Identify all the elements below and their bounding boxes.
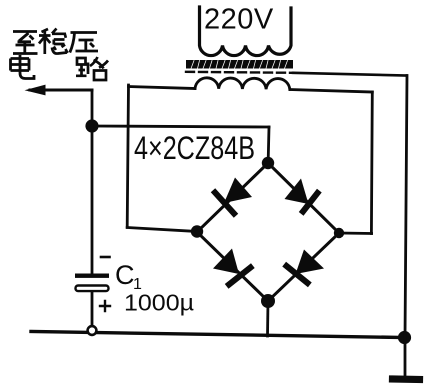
wire: capacitor to bottom rail bbox=[91, 292, 94, 327]
diode D2 (top-right) bbox=[285, 179, 318, 212]
node A junction dot bbox=[85, 119, 98, 132]
wire: right winding lead down bbox=[370, 92, 374, 234]
core dashed line bbox=[186, 72, 293, 73]
minus sign bbox=[101, 256, 110, 259]
Chinese label: 压 bbox=[70, 33, 98, 53]
wire: secondary left lead bbox=[129, 87, 196, 89]
Chinese label: 稳 bbox=[39, 29, 68, 55]
bridge right node bbox=[334, 228, 344, 238]
wire: bottom node down bbox=[266, 301, 269, 336]
wire: secondary right lead bbox=[290, 90, 372, 93]
svg-text:220V: 220V bbox=[204, 4, 274, 36]
wire: left winding lead down bbox=[127, 85, 128, 227]
wire: bridge edge bottom-right bbox=[268, 233, 339, 301]
bottom rail wire bbox=[31, 332, 404, 338]
wire: node A to top bridge corner bbox=[92, 126, 269, 127]
bridge top node bbox=[262, 157, 274, 169]
wire: core to right rail bbox=[293, 73, 407, 76]
diode D3 (bottom-left) bbox=[213, 249, 251, 285]
Chinese label: 电 bbox=[11, 55, 35, 79]
wire: bridge edge top-right bbox=[268, 163, 339, 233]
bridge bottom node bbox=[261, 294, 275, 308]
right rail wire down bbox=[405, 76, 407, 376]
svg-text:4×2CZ84B: 4×2CZ84B bbox=[134, 130, 255, 166]
ground bbox=[393, 375, 420, 383]
wire: arrow corner down bbox=[91, 90, 94, 126]
Chinese label: 路 bbox=[76, 57, 108, 80]
bridge left node bbox=[191, 225, 203, 237]
wire: node A down to capacitor bbox=[91, 126, 94, 274]
wire: to left bridge node bbox=[127, 228, 197, 232]
wire: down to top bridge node bbox=[267, 127, 271, 160]
terminal ring at capacitor/rail junction bbox=[88, 326, 97, 335]
node at bottom-right junction bbox=[398, 331, 411, 344]
capacitor C1 plates bbox=[75, 274, 109, 278]
plus sign bbox=[100, 301, 110, 311]
wire: bridge edge top-left bbox=[197, 163, 268, 232]
transformer T1 primary winding bbox=[200, 7, 292, 56]
svg-text:C: C bbox=[115, 260, 135, 290]
diode D4 (bottom-right) bbox=[287, 250, 325, 284]
svg-text:1000µ: 1000µ bbox=[124, 290, 194, 316]
transformer T1 secondary winding bbox=[195, 78, 290, 90]
wire: right node to right lead bbox=[339, 232, 372, 235]
arrow to regulator circuit bbox=[30, 89, 92, 92]
diode D1 (top-left) bbox=[215, 178, 252, 214]
transformer core (hatched bar) bbox=[186, 60, 293, 69]
Chinese label: 至 bbox=[13, 32, 38, 54]
wire: bridge edge bottom-left bbox=[197, 232, 268, 301]
